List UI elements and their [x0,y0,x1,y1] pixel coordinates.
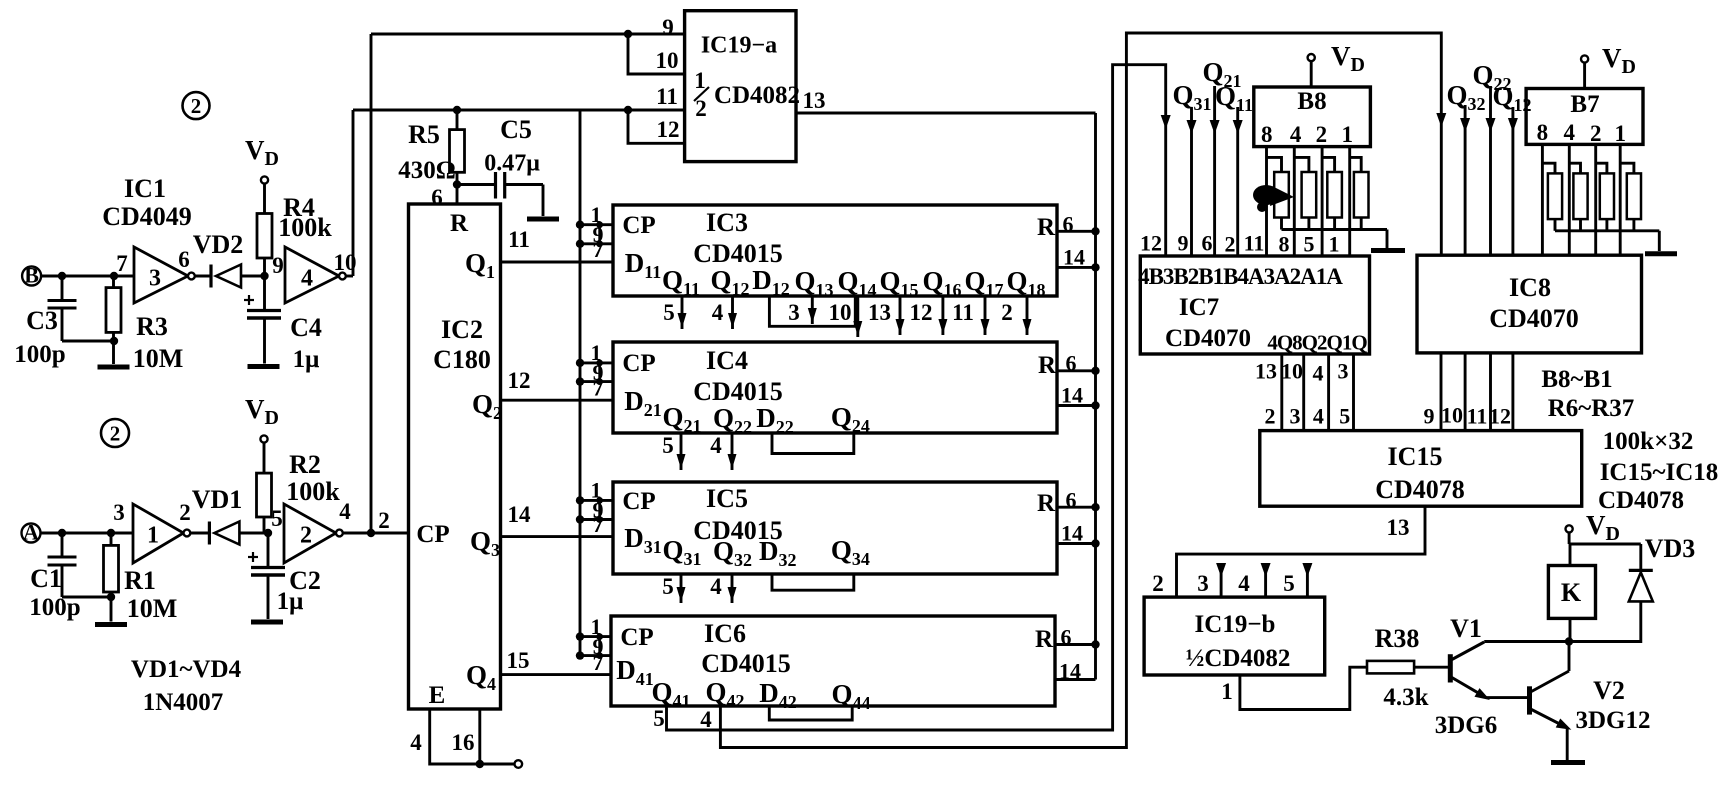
capacitor C4 [244,276,281,318]
wire inverter2 output to IC2 CP [343,529,409,537]
label R1 [124,566,156,595]
svg-text:4: 4 [1238,571,1250,596]
svg-text:CP: CP [416,521,449,548]
label Q3 (IC2) [470,526,500,560]
wire IC4 pin R-6 [1057,351,1100,376]
svg-text:CD4049: CD4049 [102,202,192,231]
svg-text:1: 1 [1341,122,1353,147]
svg-text:10M: 10M [133,344,184,373]
wire Q21 input [1202,57,1241,256]
svg-text:9: 9 [1424,404,1435,429]
svg-text:½CD4082: ½CD4082 [1186,645,1291,672]
ground (C4) [248,318,280,367]
svg-text:4: 4 [1290,122,1302,147]
label VD1~VD4 [131,656,242,683]
wire Q31 input [1172,80,1211,256]
wire IC3 pin 14 [1057,245,1100,272]
svg-text:100k: 100k [286,477,340,506]
pin 11 label (IC19-a) [656,84,678,109]
svg-text:7: 7 [116,251,128,276]
pin 13 label (IC19-a) [803,88,826,113]
wire IC6 clock pins 1/9 [576,614,611,675]
svg-text:10: 10 [1281,359,1303,384]
svg-text:6: 6 [1063,212,1074,237]
wire Q11 input [1215,81,1253,256]
resistor R5 [450,110,465,204]
label 4.3k [1383,684,1428,711]
svg-text:0.47μ: 0.47μ [484,150,540,176]
resistor R4 [257,184,272,276]
svg-text:9: 9 [272,253,284,278]
pin 10 label (IC19-a) [656,48,679,73]
wire IC2 Q2 to IC4 D21 [501,368,614,400]
svg-text:11: 11 [508,227,530,252]
wire Q32 input [1446,80,1485,255]
svg-text:6: 6 [1066,351,1077,376]
counter IC2 [409,204,501,709]
label 1N4007 [143,689,224,716]
pin 9 label [272,253,284,278]
svg-text:IC5: IC5 [706,484,748,513]
wire node A to IC1 input [41,529,134,537]
svg-text:4: 4 [1313,404,1324,429]
svg-text:CP: CP [622,488,655,515]
svg-text:B: B [24,263,39,288]
resistor R38 [1367,661,1449,674]
label Q2 (IC2) [472,389,502,423]
wire Q12 input [1492,81,1531,255]
svg-text:IC2: IC2 [441,315,483,344]
svg-text:C5: C5 [500,115,532,144]
svg-text:1: 1 [1614,121,1626,146]
svg-text:13: 13 [803,88,826,113]
diode VD3 [1569,570,1653,641]
label 100k (R2) [286,477,340,506]
ground (R1/C1) [95,597,127,625]
resistor R3 [106,276,121,341]
svg-text:4: 4 [339,499,351,524]
wires IC8 outputs to IC15 [1424,353,1513,431]
pin labels IC7 top [1140,231,1340,257]
relay K [1548,544,1595,642]
svg-text:14: 14 [1061,383,1083,408]
ink blob artifact [1253,185,1294,212]
svg-text:100p: 100p [29,594,80,621]
resistors R10-R13 (B7) [1542,144,1641,255]
svg-text:5: 5 [663,300,675,325]
inverter IC1-4 [285,247,346,303]
svg-text:6: 6 [178,247,190,272]
svg-text:6: 6 [1066,488,1077,513]
svg-text:12: 12 [657,117,680,142]
pin 3 label [113,500,125,525]
wire Q22 input [1472,60,1511,255]
svg-text:CD4015: CD4015 [701,649,791,678]
label R4 [283,193,315,222]
circled 2 marker (channel A) [101,419,129,447]
wire clock bus (left) [579,110,582,656]
wire B8 resistor ground rail [1282,230,1406,251]
svg-text:3DG12: 3DG12 [1576,707,1651,734]
svg-text:10: 10 [829,300,852,325]
svg-text:IC6: IC6 [704,619,746,648]
svg-text:IC15~IC18: IC15~IC18 [1600,459,1719,486]
svg-text:R38: R38 [1375,624,1420,653]
svg-text:CD4015: CD4015 [693,239,783,268]
svg-text:2: 2 [1265,404,1276,429]
svg-text:2: 2 [191,94,202,118]
svg-text:14: 14 [1061,521,1083,546]
svg-text:4: 4 [301,265,313,291]
ground (C2) [251,575,283,622]
wire IC6 pin R-6 [1055,625,1100,650]
node B [22,263,41,288]
wire IC2 pin4/16 bracket [430,709,522,768]
svg-text:CD4070: CD4070 [1165,325,1251,352]
svg-text:6: 6 [1202,231,1213,256]
svg-text:C4: C4 [290,313,322,342]
wire IC3 D-Q bracket [769,296,855,326]
pin 5 label [271,506,283,531]
resistors R6-R9 (B8) [1267,147,1369,256]
pin 2 label [179,500,191,525]
wire IC4 output stubs [662,433,736,470]
wire IC4 pin 14 [1057,383,1100,410]
svg-text:7: 7 [593,237,604,262]
wire IC2 Q3 to IC5 D31 [501,502,614,537]
svg-text:2: 2 [1152,571,1164,596]
pin 7 label [116,251,128,276]
wire IC19-b inputs 3/4/5 [1216,563,1312,597]
capacitor C3 [48,276,119,345]
svg-text:K: K [1561,578,1582,607]
wire IC2 Q1 to IC3 D11 [501,227,614,262]
label C4 [290,313,322,342]
svg-text:8: 8 [1537,120,1549,145]
xor gate IC7 [1138,256,1369,354]
svg-text:R3: R3 [136,312,168,341]
svg-text:1μ: 1μ [293,346,320,373]
svg-text:12: 12 [508,368,531,393]
svg-text:IC15: IC15 [1388,442,1443,471]
pin 4 label (IC2) [410,730,422,755]
svg-text:16: 16 [452,730,475,755]
node A [22,520,41,545]
ground (R3/C3) [98,341,130,367]
svg-text:10: 10 [1441,403,1463,428]
label 100p [14,341,65,368]
label 100kx32 [1603,428,1694,455]
shift register IC6 [611,616,1055,713]
power VD terminal (R4) [245,135,279,184]
svg-text:2: 2 [378,508,390,533]
svg-text:11: 11 [656,84,678,109]
svg-text:2: 2 [695,96,707,121]
svg-text:B7: B7 [1570,91,1599,118]
wire net B-clock run [353,106,685,114]
svg-text:3: 3 [1338,359,1349,384]
svg-text:VD3: VD3 [1645,534,1696,563]
wire reset bus (right) [1094,113,1097,680]
svg-text:14: 14 [1059,659,1081,684]
svg-text:R1: R1 [124,566,156,595]
svg-text:R5: R5 [408,120,440,149]
wire IC5 output stubs [662,574,736,603]
label IC1 [124,174,166,203]
svg-text:IC19−b: IC19−b [1195,611,1276,638]
label 1u (C2) [277,588,304,615]
svg-text:C180: C180 [433,345,491,374]
shift register IC5 [613,482,1057,574]
svg-text:R: R [450,210,469,237]
capacitor C1 [48,533,116,601]
pin labels IC19-b [1152,571,1295,596]
svg-text:6: 6 [431,185,443,210]
wire IC6 Q42 to IC8 input [700,33,1446,748]
svg-text:12: 12 [1489,404,1511,429]
svg-text:4: 4 [712,300,724,325]
svg-text:8: 8 [1261,122,1273,147]
svg-text:100p: 100p [14,341,65,368]
svg-text:C3: C3 [26,306,58,335]
svg-text:2: 2 [300,522,312,548]
label 100k (R4) [278,213,332,242]
svg-text:7: 7 [593,512,604,537]
resistor R1 [104,533,119,597]
svg-text:R6~R37: R6~R37 [1548,395,1635,422]
wire bracket pins 11-12 [628,110,685,143]
svg-text:R: R [1035,626,1054,653]
svg-text:2: 2 [1225,232,1236,257]
svg-text:IC8: IC8 [1509,273,1551,302]
svg-text:5: 5 [271,506,283,531]
diode VD2 [195,265,269,288]
svg-text:R: R [1038,352,1057,379]
svg-text:12: 12 [910,300,933,325]
wire IC5 pin R-6 [1057,488,1100,513]
svg-text:CP: CP [622,212,655,239]
capacitor C5 [457,172,543,199]
svg-text:9: 9 [662,15,674,40]
svg-text:3: 3 [1197,571,1209,596]
label R2 [289,450,321,479]
svg-text:2: 2 [110,421,121,445]
power VD terminal (relay) [1566,510,1620,545]
pin 2 label (IC2 CP) [378,508,390,533]
wire IC19-b output 1 [1221,667,1367,709]
inverter IC1-3 [134,247,195,303]
svg-text:2: 2 [1316,122,1328,147]
nor gate IC15 [1260,431,1582,507]
svg-text:10M: 10M [127,594,178,623]
svg-text:4: 4 [1313,361,1324,386]
label R3 [136,312,168,341]
label R38 [1375,624,1420,653]
wire inverter4 output up [346,110,353,276]
svg-text:CD4015: CD4015 [693,377,783,406]
wire IC19-a output 13 [796,112,1096,115]
svg-text:7: 7 [593,650,604,675]
svg-text:7: 7 [593,375,604,400]
pin 16 label (IC2) [452,730,475,755]
svg-text:11: 11 [952,300,974,325]
svg-text:2: 2 [179,500,191,525]
svg-text:14: 14 [508,502,532,527]
wire bracket pins 9-10 [628,34,685,74]
resistor network B7 [1526,89,1643,147]
svg-text:R: R [1037,490,1056,517]
label C1 [30,564,62,593]
svg-text:13: 13 [1387,515,1410,540]
ground (C5) [527,185,559,220]
label 10M (R1) [127,594,178,623]
label R6~R37 [1548,395,1635,422]
svg-text:6: 6 [1061,625,1072,650]
wire IC3 output stubs [663,296,1031,337]
svg-text:4: 4 [1564,120,1576,145]
svg-text:CP: CP [622,350,655,377]
svg-text:4.3k: 4.3k [1383,684,1428,711]
inverter IC1-2 [284,504,343,563]
svg-text:VD1~VD4: VD1~VD4 [131,656,242,683]
label C3 [26,306,58,335]
svg-text:3: 3 [1290,404,1301,429]
svg-text:3: 3 [113,500,125,525]
svg-text:IC7: IC7 [1179,294,1219,321]
wire IC5 pin 14 [1057,521,1100,548]
label Q4 (IC2) [466,660,496,694]
svg-text:12: 12 [1140,231,1162,256]
power VD terminal (B7) [1581,43,1636,89]
ground (V2 emitter) [1551,760,1585,765]
svg-text:5: 5 [653,706,665,731]
wire VD to VD3 [1569,544,1641,570]
label 1u (C4) [293,346,320,373]
capacitor C2 [248,533,285,575]
wire B7 resistor ground rail [1555,231,1677,254]
svg-text:1: 1 [694,68,706,93]
label CD4049 [102,202,192,231]
pin 12 label (IC19-a) [657,117,680,142]
svg-text:R: R [1037,214,1056,241]
shift register IC4 [613,342,1057,437]
svg-text:4B3B2B1B4A3A2A1A: 4B3B2B1B4A3A2A1A [1138,264,1343,289]
svg-text:B8: B8 [1297,88,1326,115]
pin 10 label [334,250,357,275]
op-amp gate IC19-a [685,11,800,162]
wire channel A clock riser [370,34,373,533]
svg-text:1μ: 1μ [277,588,304,615]
svg-text:9: 9 [1178,231,1189,256]
label Q1 (IC2) [465,248,495,282]
power VD terminal (B8) [1308,41,1365,87]
circled 2 marker (channel B) [183,92,210,119]
pin 9 label (IC19-a) [662,15,674,40]
wire IC4 D-Q bracket [772,433,854,454]
svg-text:5: 5 [662,433,674,458]
svg-text:IC3: IC3 [706,208,748,237]
svg-text:3: 3 [788,300,800,325]
wire IC5 D-Q bracket [772,574,854,590]
svg-text:4: 4 [410,730,422,755]
svg-text:R2: R2 [289,450,321,479]
svg-text:CP: CP [620,624,653,651]
label CD4078 (note) [1598,487,1684,514]
svg-text:13: 13 [868,300,891,325]
svg-text:11: 11 [1244,231,1265,256]
label VD2 [193,230,244,259]
svg-text:100k×32: 100k×32 [1603,428,1694,455]
label V1 [1450,614,1482,643]
label C2 [289,566,321,595]
power VD terminal (R2) [245,394,279,443]
wires IC7 outputs to IC15 [1255,354,1354,431]
wire IC2 Q4 to IC6 D41 [501,648,612,675]
svg-text:B8~B1: B8~B1 [1541,366,1612,393]
svg-text:CD4082: CD4082 [714,82,800,109]
resistor network B8 [1254,87,1371,147]
wire IC6 D-Q bracket [769,706,852,720]
svg-text:CD4070: CD4070 [1489,304,1579,333]
svg-text:430Ω: 430Ω [398,157,456,184]
wire net A-clock top run [371,30,685,38]
svg-text:V2: V2 [1593,676,1625,705]
svg-text:V1: V1 [1450,614,1482,643]
label 430ohm [398,157,456,184]
wire node B to IC1 input [41,272,134,280]
svg-text:CD4078: CD4078 [1375,475,1465,504]
svg-text:1N4007: 1N4007 [143,689,224,716]
svg-text:3DG6: 3DG6 [1435,712,1498,739]
pin 4 label [339,499,351,524]
inverter IC1-1 [133,504,190,563]
svg-text:8: 8 [1279,232,1290,257]
wire IC6 Q41 to IC7 pin12 [653,65,1170,731]
svg-text:VD2: VD2 [193,230,244,259]
label B8~B1 [1541,366,1612,393]
label 10M [133,344,184,373]
svg-text:VD1: VD1 [192,485,243,514]
label 3DG6 [1435,712,1498,739]
svg-text:13: 13 [1255,359,1277,384]
svg-text:E: E [429,682,446,709]
svg-text:1: 1 [147,522,159,548]
node relay junction [1565,637,1573,645]
wire IC4 clock pins 1/9 [576,340,613,400]
svg-text:CD4078: CD4078 [1598,487,1684,514]
svg-text:5: 5 [1339,404,1350,429]
resistor R2 [257,443,272,533]
svg-text:4: 4 [710,433,722,458]
transistor V1 [1450,642,1569,705]
wire IC3 clock pins 1/9 [576,202,613,262]
svg-text:15: 15 [507,648,530,673]
svg-text:4: 4 [700,707,712,732]
svg-text:IC1: IC1 [124,174,166,203]
svg-text:IC19−a: IC19−a [701,32,777,58]
shift register IC3 [613,205,1057,300]
svg-text:3: 3 [149,265,161,291]
xor gate IC8 [1417,255,1642,353]
label 3DG12 [1576,707,1651,734]
pin 6 label [178,247,190,272]
label 0.47u [484,150,540,176]
svg-text:1: 1 [1329,232,1340,257]
svg-text:C1: C1 [30,564,62,593]
wire IC3 pin R-6 [1057,212,1100,237]
label 100p (C1) [29,594,80,621]
label R5 [408,120,440,149]
